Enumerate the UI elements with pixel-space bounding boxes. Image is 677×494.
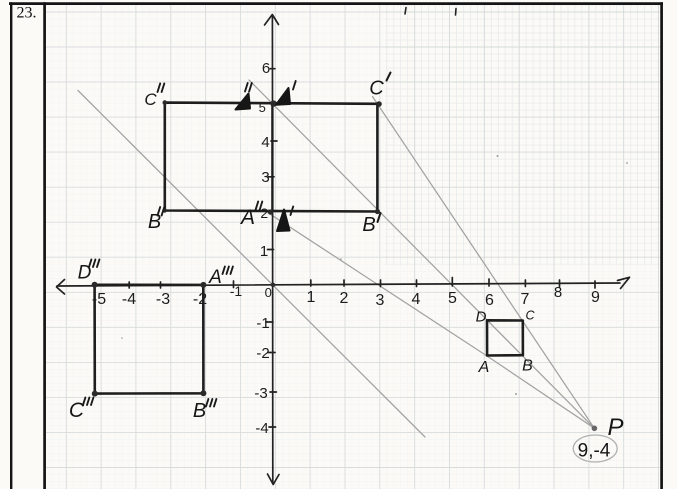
svg-text:9: 9 xyxy=(591,289,600,306)
svg-text:A: A xyxy=(208,267,222,288)
svg-text:C: C xyxy=(369,78,384,100)
svg-text:0: 0 xyxy=(265,285,272,300)
svg-text:-3: -3 xyxy=(254,385,267,402)
svg-text:-1: -1 xyxy=(230,283,243,299)
svg-text:9,-4: 9,-4 xyxy=(578,441,611,462)
svg-text:C: C xyxy=(525,309,535,323)
svg-text:-4: -4 xyxy=(122,291,136,308)
svg-text:B: B xyxy=(148,211,161,233)
svg-text:B: B xyxy=(362,214,375,236)
svg-text:A: A xyxy=(478,359,490,376)
svg-text:-2: -2 xyxy=(193,291,207,308)
svg-text:7: 7 xyxy=(521,291,530,308)
svg-text:23.: 23. xyxy=(17,5,37,22)
svg-text:-3: -3 xyxy=(156,291,170,308)
svg-text:3: 3 xyxy=(376,292,385,309)
svg-text:C: C xyxy=(69,399,85,422)
svg-text:1: 1 xyxy=(260,243,268,260)
svg-text:B: B xyxy=(522,358,533,375)
svg-text:-4: -4 xyxy=(255,420,268,437)
svg-text:B: B xyxy=(193,400,206,422)
svg-text:3: 3 xyxy=(261,169,269,186)
svg-text:-2: -2 xyxy=(256,345,269,362)
svg-text:8: 8 xyxy=(554,284,562,301)
svg-text:6: 6 xyxy=(485,292,494,309)
svg-text:A: A xyxy=(239,206,255,229)
svg-text:C: C xyxy=(144,90,157,109)
svg-text:2: 2 xyxy=(340,290,349,307)
svg-text:D: D xyxy=(476,308,487,325)
svg-text:5: 5 xyxy=(448,290,457,307)
svg-text:2: 2 xyxy=(260,205,268,221)
svg-text:P: P xyxy=(607,414,623,441)
svg-text:4: 4 xyxy=(261,134,269,151)
svg-text:6: 6 xyxy=(262,60,270,77)
svg-text:-1: -1 xyxy=(256,315,269,332)
svg-text:4: 4 xyxy=(412,291,421,308)
svg-text:1: 1 xyxy=(307,289,316,306)
